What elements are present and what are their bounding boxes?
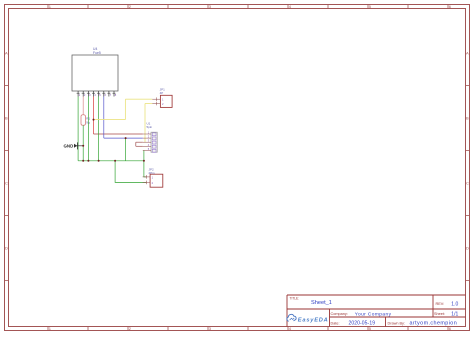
svg-text:GND: GND — [64, 144, 74, 149]
header U1 pin 2 line — [143, 137, 151, 139]
svg-text:Fue5: Fue5 — [93, 51, 101, 55]
IC U4 pin 3 stub — [87, 91, 89, 97]
IC U4 pin 8 stub — [113, 91, 115, 97]
IC U4 pin name marks — [77, 92, 116, 94]
wire green link from blue net to bus — [125, 138, 127, 161]
wire green header pin5 drop to bus and JP2 pin1 — [144, 150, 147, 177]
junction dot red yellow tap — [93, 119, 95, 121]
connector JP1 pin 2 — [152, 102, 160, 106]
frame ticks bottom — [48, 327, 448, 331]
wire pin3 green vertical — [87, 97, 89, 161]
wire pin4 red vertical — [93, 97, 95, 135]
junction GND tap — [82, 145, 84, 147]
svg-text:Sheet:: Sheet: — [434, 312, 445, 316]
junction dot bus p2 — [82, 160, 84, 162]
svg-text:Drawn By:: Drawn By: — [388, 321, 406, 325]
wire pin2 lead to resistor — [82, 97, 84, 115]
IC U4 body — [72, 55, 118, 91]
wire maroon fork to header pin3 — [136, 141, 143, 143]
connector JP2 pin 2 — [143, 181, 151, 185]
connector JP1 pin 1 — [152, 97, 160, 101]
wire yellow vertical drop — [144, 104, 146, 143]
svg-text:2020-05-19: 2020-05-19 — [349, 321, 376, 327]
wire yellow vertical riser — [124, 99, 126, 119]
connector JP2 body — [150, 174, 163, 187]
svg-text:5pin: 5pin — [147, 125, 153, 129]
frame row letters left — [5, 51, 8, 251]
svg-text:Sheet_1: Sheet_1 — [311, 300, 332, 306]
svg-text:1.0: 1.0 — [451, 301, 458, 307]
junction dot bus right — [143, 160, 145, 162]
header U1 pin 3 line — [143, 141, 151, 143]
svg-text:artyom.chempion: artyom.chempion — [410, 321, 458, 327]
header U1 pin 4 line — [143, 145, 151, 147]
svg-text:A: A — [466, 51, 469, 56]
svg-text:REV:: REV: — [436, 302, 445, 306]
EasyEDA logo cloud icon — [287, 314, 296, 321]
frame row letters right — [466, 51, 469, 251]
IC U4 pin numbers — [79, 93, 117, 97]
wire yellow horizontal to JP1 pin2 — [145, 103, 152, 105]
svg-text:Company:: Company: — [331, 312, 348, 316]
svg-text:C: C — [466, 181, 469, 186]
junction dot bus branch — [114, 160, 116, 162]
svg-text:Your Company: Your Company — [355, 311, 392, 317]
frame column numbers bottom — [49, 326, 452, 331]
wire green ground bus horizontal — [78, 160, 144, 162]
ground net flag GND — [64, 142, 84, 149]
junction dot bus p3 — [87, 160, 89, 162]
wire maroon fork vertical — [135, 142, 137, 146]
wire pin6 blue vertical — [103, 97, 105, 139]
IC U4 pin 5 stub — [98, 91, 100, 97]
title block grid lines — [287, 295, 466, 327]
header U1 pad squares — [152, 133, 156, 152]
svg-text:D: D — [466, 246, 469, 251]
svg-text:B: B — [466, 116, 469, 121]
IC U4 pin 6 stub — [103, 91, 105, 97]
frame column numbers top — [49, 4, 452, 9]
wire green branch to JP2 pin2 — [115, 161, 146, 183]
svg-text:C: C — [5, 181, 8, 186]
frame ticks left — [5, 86, 9, 281]
svg-text:2Pin: 2Pin — [149, 171, 155, 175]
wire yellow horizontal to JP1 pin1 — [125, 98, 152, 100]
IC U4 pin 7 stub — [108, 91, 110, 97]
IC U4 pin 4 stub — [93, 91, 95, 97]
header U1 pin 1 line — [143, 133, 151, 135]
header U1 body — [151, 132, 157, 152]
svg-text:D: D — [5, 246, 8, 251]
wire red horizontal to header pin1 — [94, 133, 143, 135]
wire pin1 green vertical — [77, 97, 79, 161]
resistor R1 body — [81, 115, 85, 125]
wire maroon fork to header pin4 — [136, 145, 143, 147]
svg-text:TITLE:: TITLE: — [290, 297, 300, 301]
wire yellow branch horizontal — [94, 119, 126, 121]
svg-text:4P: 4P — [160, 91, 164, 95]
wire pin5 green vertical — [98, 97, 100, 161]
connector JP1 body — [160, 95, 172, 107]
svg-text:B: B — [5, 116, 8, 121]
svg-text:A: A — [5, 51, 8, 56]
header U1 pin 5 line — [143, 149, 151, 151]
frame ticks right — [466, 86, 470, 281]
IC U4 pin 1 stub — [77, 91, 79, 97]
wire blue horizontal to header pin2 — [104, 137, 143, 139]
wire resistor bottom green vertical — [82, 125, 84, 161]
svg-text:EasyEDA: EasyEDA — [298, 317, 329, 323]
svg-text:1/1: 1/1 — [451, 311, 458, 317]
frame ticks top — [48, 5, 448, 9]
header U1 pin numbers — [148, 131, 150, 151]
connector JP2 pin 1 — [143, 175, 151, 179]
svg-text:Date:: Date: — [331, 321, 340, 325]
junction dot blue green tap — [125, 137, 127, 139]
junction dot bus p5 — [98, 160, 100, 162]
IC U4 pin 2 stub — [82, 91, 84, 97]
